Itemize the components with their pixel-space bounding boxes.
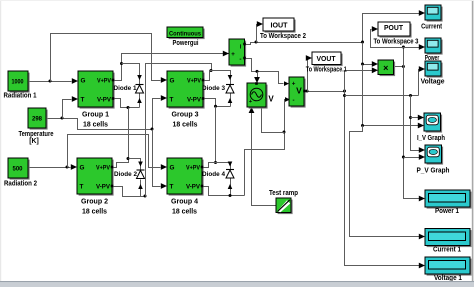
arrow into Diode1 top [137, 75, 142, 80]
window right edge [472, 0, 474, 281]
label Power&#160;1 [435, 206, 459, 215]
svg-text:V: V [268, 95, 274, 104]
powergui Continuous [167, 27, 205, 39]
wire current - to source top [245, 59, 284, 84]
svg-text:Current: Current [421, 21, 442, 30]
arrow into product lower input [372, 67, 378, 73]
wire V drop to Voltage 1 display [345, 92, 420, 266]
svg-text:Power 1: Power 1 [435, 206, 459, 215]
wire Radiation1 to Group1 G [29, 81, 72, 83]
current measurement block [229, 39, 246, 67]
wire I drop to product [363, 43, 373, 65]
display Voltage&#160;1 [425, 257, 472, 276]
node junction i4 [361, 124, 364, 127]
svg-text:I_V Graph: I_V Graph [417, 133, 445, 142]
label P_V Graph [417, 165, 450, 174]
svg-text:T: T [81, 97, 85, 104]
wire V riser to Voltage scope [419, 70, 420, 96]
arrow into I_V Graph bottom [418, 123, 424, 129]
window bottom strip [0, 281, 474, 287]
wire Diode2 bottom [140, 180, 142, 197]
svg-text:To Workspace.1: To Workspace.1 [306, 65, 347, 74]
label Current [421, 21, 442, 30]
wire array- return to source/voltmeter [245, 100, 289, 196]
display Power&#160;1 [425, 190, 472, 209]
arrow into source top [254, 77, 260, 83]
svg-text:G: G [170, 78, 175, 85]
wire Temperature to junction [47, 119, 153, 130]
wire Group4 V+PV to Diode4 top [203, 163, 231, 170]
wire Group2 V-PV [113, 187, 146, 197]
svg-text:V-PV: V-PV [187, 97, 202, 104]
arrow into Group3 T [161, 95, 167, 101]
svg-text:T: T [170, 184, 174, 191]
node junction temp1 [61, 117, 64, 120]
svg-text:1000: 1000 [12, 79, 24, 86]
svg-text:500: 500 [13, 166, 23, 173]
arrow into Voltage Measurement - [285, 97, 290, 102]
wire current i output [245, 43, 363, 45]
product block [378, 60, 395, 76]
port [202, 97, 205, 100]
wire V riser to product [345, 71, 373, 92]
label I_V Graph [417, 133, 445, 142]
label Radiation 1 [4, 91, 37, 100]
arrow into Voltage scope [419, 66, 425, 72]
node junction vm1 [127, 106, 130, 109]
wire source - terminal [262, 108, 285, 133]
svg-text:G: G [170, 165, 175, 172]
arrow into P_V Graph top [419, 147, 425, 153]
svg-text:G: G [81, 78, 86, 85]
svg-text:To Workspace 3: To Workspace 3 [374, 37, 419, 46]
svg-text:298: 298 [32, 116, 42, 123]
subsystem Group 4 18 cells [167, 158, 204, 196]
label Diode 1 [114, 85, 137, 92]
arrow into Group4 T [161, 183, 167, 189]
to workspace IOUT [263, 18, 296, 33]
node junction v3 [343, 94, 346, 97]
arrow into Group2 G [71, 164, 77, 170]
svg-text:18 cells: 18 cells [173, 120, 198, 129]
node junction vout1 [306, 90, 309, 93]
label Diode 2 [114, 171, 137, 178]
arrow into Diode4 top [228, 162, 233, 167]
scope Current [425, 5, 443, 22]
wire V output [305, 91, 345, 93]
node junction vp3 [210, 69, 213, 72]
window top edge [0, 0, 474, 1]
wire Radiation1 top branch to Group3 G [51, 34, 161, 82]
port source top [255, 82, 258, 85]
arrow into Group1 G [72, 78, 78, 84]
node junction srcneg [283, 131, 286, 134]
node junction rad1 [49, 80, 52, 83]
svg-text:Diode 1: Diode 1 [114, 85, 137, 92]
constant Temperature value 298 [28, 108, 48, 130]
node junction series23 [144, 195, 147, 198]
wire Group3 V+PV to Diode3 top [204, 71, 231, 85]
wire V distribution line [345, 95, 419, 97]
diode Diode 4 [226, 170, 234, 179]
wire riser to IOUT [257, 25, 258, 43]
wire P drop to Power 1 display [404, 67, 420, 199]
port [201, 185, 204, 188]
arrow into Current 1 [419, 234, 425, 240]
node junction vp4 [214, 161, 217, 164]
svg-text:POUT: POUT [384, 23, 403, 32]
svg-text:-: - [239, 56, 241, 63]
xy graph P_V Graph [425, 145, 443, 165]
svg-text:Power: Power [425, 53, 440, 62]
port current i out [243, 43, 246, 46]
svg-text:Diode 3: Diode 3 [202, 85, 225, 92]
arrow into Diode1 bottom [137, 98, 142, 103]
wire I drop to Current 1 display [350, 126, 420, 237]
arrow into Diode3 top [228, 75, 233, 80]
port current - out [243, 57, 246, 60]
wire product output [394, 66, 404, 68]
label To Workspace 2 [260, 31, 306, 40]
node junction p2 [402, 46, 405, 49]
port [202, 79, 205, 82]
scope Voltage [425, 61, 443, 78]
arrow into Power 1 [419, 196, 425, 202]
svg-text:P_V Graph: P_V Graph [417, 165, 450, 174]
subsystem Group 1 18 cells [78, 71, 115, 109]
node junction temp2 [151, 128, 154, 131]
wire Group1 V+PV to Current Measurement [114, 54, 229, 81]
svg-text:Radiation 2: Radiation 2 [4, 179, 37, 188]
label Powergui [173, 38, 199, 47]
label V source [268, 95, 274, 104]
node junction v2 [343, 90, 346, 93]
port voltage out [303, 90, 306, 93]
svg-text:V+PV: V+PV [97, 78, 112, 85]
wire I drop to I_V Graph bottom [363, 65, 419, 126]
svg-text:To Workspace 2: To Workspace 2 [260, 31, 306, 40]
arrow into Group1 T [72, 96, 78, 102]
arrow into Voltage Measurement + [284, 81, 289, 86]
svg-text:Group 3: Group 3 [172, 110, 199, 119]
port [201, 166, 204, 169]
svg-text:Group 4: Group 4 [171, 197, 198, 206]
wire I to Current scope [363, 14, 420, 43]
wire V to I_V Graph top [411, 117, 419, 119]
svg-text:Powergui: Powergui [173, 38, 199, 47]
node junction p1 [402, 65, 405, 68]
svg-text:V: V [296, 86, 302, 96]
arrow into Diode2 top [138, 162, 143, 167]
label Group 3 [172, 110, 199, 129]
arrow into Group3 G [161, 77, 167, 83]
window left edge [0, 0, 1, 281]
node junction vp1 [120, 62, 123, 65]
xy graph I_V Graph [424, 113, 442, 133]
svg-text:V+PV: V+PV [96, 165, 111, 172]
port [112, 79, 115, 82]
arrow into Current scope [419, 10, 425, 16]
diode Diode 2 [137, 170, 145, 179]
diode Diode 1 [136, 85, 144, 94]
wire Diode3 bottom [230, 94, 232, 107]
arrow into product upper input [372, 61, 378, 67]
arrow into Power scope [419, 44, 425, 50]
svg-text:Diode 4: Diode 4 [202, 171, 225, 178]
to workspace POUT [378, 22, 412, 38]
wire riser to VOUT [307, 59, 308, 92]
scope Power [425, 38, 443, 55]
wire temp riser to Group3 T [153, 99, 161, 130]
svg-text:+: + [292, 81, 296, 88]
wire P to POUT [371, 30, 404, 48]
port [111, 185, 114, 188]
wire tap to Diode1 top [122, 64, 140, 85]
wire Group1 V-PV [114, 99, 140, 108]
svg-text:18 cells: 18 cells [82, 207, 107, 216]
arrow into Diode2 bottom [138, 184, 143, 189]
wire P to Power scope [404, 47, 420, 49]
port [111, 166, 114, 169]
constant Radiation 1 value 1000 [8, 71, 30, 93]
svg-text:Voltage 1: Voltage 1 [434, 273, 462, 282]
wire Test ramp to source s input [252, 113, 277, 206]
label Group 2 [81, 197, 108, 216]
wire Group4 V-PV return [203, 187, 245, 196]
svg-text:Voltage: Voltage [421, 76, 445, 85]
svg-text:V-PV: V-PV [97, 97, 112, 104]
wire tap to Diode2 top [129, 159, 141, 171]
svg-text:T: T [170, 97, 174, 104]
wire V drop to graphs [411, 96, 420, 151]
svg-text:-: - [292, 97, 294, 104]
label Voltage&#160;1 [434, 273, 462, 282]
wire drop into source + [257, 72, 259, 79]
wire temp drop to Group4 T [153, 130, 161, 187]
svg-text:IOUT: IOUT [271, 20, 288, 29]
svg-text:V+PV: V+PV [187, 78, 202, 85]
arrow into I_V Graph top [418, 115, 424, 121]
arrow into source s input [249, 107, 255, 113]
arrow into POUT [372, 26, 378, 32]
label Diode 3 [202, 85, 225, 92]
constant Radiation 2 value 500 [8, 158, 30, 180]
label To Workspace 3 [374, 37, 419, 46]
to workspace VOUT [312, 52, 343, 66]
subsystem Group 2 18 cells [77, 158, 114, 196]
label Radiation 2 [4, 179, 37, 188]
label Current&#160;1 [433, 245, 461, 254]
node junction srctop [256, 70, 259, 73]
arrow into Current Measurement + [223, 51, 229, 57]
node junction iout [255, 41, 258, 44]
svg-text:×: × [383, 63, 388, 73]
wire P to P_V Graph bottom [404, 157, 420, 159]
svg-text:Continuous: Continuous [169, 30, 201, 37]
svg-text:Group 1: Group 1 [82, 110, 109, 119]
diode Diode 3 [226, 85, 234, 94]
svg-text:+: + [231, 51, 235, 58]
wire series Group2- to Group3+ [146, 64, 212, 197]
svg-text:VOUT: VOUT [317, 54, 336, 63]
node junction p3 [402, 156, 405, 159]
svg-text:Test ramp: Test ramp [269, 188, 299, 197]
wire Diode1 bottom [139, 94, 141, 108]
label Power [425, 53, 440, 62]
wire series Group1- to Group2+ [113, 108, 129, 168]
svg-text:V+PV: V+PV [186, 165, 201, 172]
wire P riser [403, 48, 405, 67]
wire Diode4 bottom [230, 179, 232, 196]
label Test ramp [269, 188, 299, 197]
node junction d2top [127, 157, 130, 160]
port [112, 97, 115, 100]
svg-text:V-PV: V-PV [96, 184, 111, 191]
svg-text:[K]: [K] [29, 136, 39, 145]
svg-text:Radiation 1: Radiation 1 [4, 91, 37, 100]
label Group 4 [171, 197, 198, 216]
wire Radiation2 branch to Group4 G [68, 135, 161, 168]
label To Workspace 1 [306, 65, 347, 74]
node junction i3 [361, 63, 364, 66]
arrow into Diode3 bottom [228, 98, 233, 103]
arrow into Voltage 1 [419, 263, 425, 269]
node junction v5 [409, 116, 412, 119]
node junction v4 [409, 94, 412, 97]
svg-text:T: T [80, 184, 84, 191]
subsystem Group 3 18 cells [167, 71, 205, 109]
label Group 1 [82, 110, 109, 129]
node junction d4bot [229, 194, 232, 197]
node junction rad2 [66, 166, 69, 169]
arrow into VOUT [306, 55, 312, 61]
svg-text:18 cells: 18 cells [83, 120, 108, 129]
svg-text:Current 1: Current 1 [433, 245, 461, 254]
node junction i2 [361, 41, 364, 44]
arrow into IOUT [257, 21, 263, 27]
svg-text:18 cells: 18 cells [172, 207, 197, 216]
svg-text:V-PV: V-PV [186, 184, 201, 191]
voltage measurement block [289, 77, 306, 108]
svg-text:G: G [80, 165, 85, 172]
arrow into P_V Graph bottom [419, 154, 425, 160]
wire Radiation2 to Group2 G [29, 167, 71, 169]
label Voltage [421, 76, 445, 85]
ramp source Test ramp [276, 198, 293, 214]
display Current&#160;1 [425, 229, 472, 248]
node junction series34 [214, 105, 217, 108]
arrow into Group4 G [161, 164, 167, 170]
arrow into Diode4 bottom [228, 184, 233, 189]
svg-text:Diode 2: Diode 2 [114, 171, 137, 178]
wire temp riser to Group1 T [63, 100, 72, 119]
controlled voltage source [247, 83, 268, 109]
wire Group3 V-PV [204, 99, 231, 107]
label Diode 4 [202, 171, 225, 178]
wire series Group3- to Group4+ [215, 107, 217, 163]
svg-text:Group 2: Group 2 [81, 197, 108, 206]
label Temperature [K] [19, 129, 54, 145]
